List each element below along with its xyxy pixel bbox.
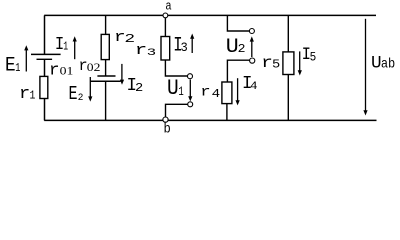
svg-text:5: 5 (272, 57, 280, 71)
svg-text:r: r (200, 84, 210, 100)
wire resistor r3 to U1 top terminal (165, 60, 187, 76)
terminal circle U1 top (188, 74, 193, 79)
wire resistor r2 to battery E2 (105, 60, 107, 76)
svg-text:1: 1 (63, 41, 68, 54)
battery E2 (90, 76, 120, 81)
svg-text:2: 2 (238, 42, 246, 55)
arrow E1 (emf direction) (24, 45, 28, 71)
svg-text:E: E (68, 83, 77, 106)
terminal circle U2 bottom (250, 58, 255, 63)
svg-text:1: 1 (15, 63, 20, 76)
wire resistor r1 to bottom rail (44, 99, 46, 121)
svg-text:01: 01 (60, 65, 74, 77)
arrow U2 (voltage direction) (250, 36, 254, 57)
wire resistor r4 to bottom rail (226, 104, 228, 121)
svg-text:2: 2 (124, 32, 135, 46)
arrow Uab (voltage direction) (363, 19, 367, 116)
svg-text:5: 5 (310, 50, 317, 65)
wire resistor r5 to bottom rail (287, 75, 289, 121)
wire branch U2 top (227, 15, 249, 31)
svg-text:4: 4 (212, 87, 221, 101)
arrow I5 (298, 51, 302, 75)
wire battery E1 to resistor r1 (44, 60, 46, 77)
resistor r2 (101, 34, 109, 59)
svg-text:a: a (165, 0, 171, 14)
wire bottom rail (44, 119, 376, 121)
svg-text:r: r (49, 61, 60, 81)
arrow I3 (190, 34, 194, 54)
svg-text:ab: ab (381, 56, 395, 72)
svg-text:2: 2 (78, 92, 84, 103)
svg-text:02: 02 (87, 61, 101, 74)
arrow I2 (120, 64, 124, 85)
terminal circle U1 bottom (188, 102, 193, 107)
terminal circle U2 top (249, 29, 254, 34)
svg-text:3: 3 (181, 40, 188, 56)
svg-text:r: r (135, 43, 147, 60)
svg-text:1: 1 (30, 90, 36, 103)
battery E1 (31, 54, 61, 59)
wire left edge upper (44, 15, 46, 54)
arrow I1 (73, 36, 77, 59)
wire U1 bottom terminal to node b (166, 104, 188, 117)
wire U2 bottom terminal to resistor r4 (227, 60, 249, 82)
wire top rail (44, 14, 376, 16)
svg-text:4: 4 (250, 80, 258, 93)
svg-text:U: U (167, 76, 179, 102)
node b terminal circle (163, 117, 168, 122)
resistor r3 (161, 37, 170, 61)
wire node a to resistor r3 (164, 18, 166, 37)
svg-text:b: b (164, 121, 171, 137)
resistor r1 (40, 76, 48, 98)
wire branch r5 top (287, 15, 289, 52)
wire battery E2 to bottom rail (105, 81, 107, 120)
svg-text:r: r (19, 85, 30, 103)
svg-text:2: 2 (135, 81, 143, 95)
arrow E2 (emf direction) (88, 77, 92, 102)
svg-text:E: E (5, 53, 16, 77)
node a terminal circle (163, 13, 168, 18)
resistor r4 (222, 82, 232, 104)
wire branch r2 top (105, 15, 107, 34)
resistor r5 (283, 52, 294, 75)
svg-text:3: 3 (147, 47, 156, 59)
svg-text:1: 1 (178, 86, 184, 100)
arrow U1 (voltage direction) (188, 80, 192, 102)
arrow I4 (236, 78, 240, 105)
